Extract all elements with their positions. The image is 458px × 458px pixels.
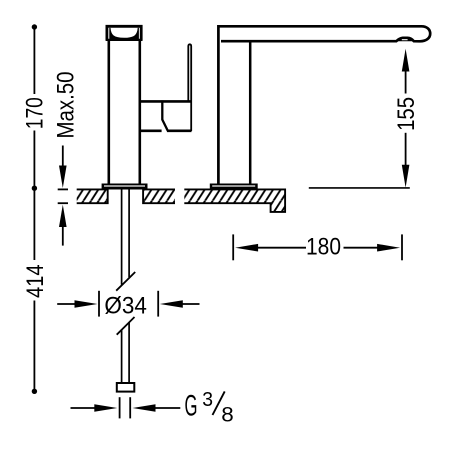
svg-text:3: 3 [202, 388, 213, 411]
svg-text:G: G [185, 390, 198, 423]
svg-text:Max.50: Max.50 [53, 72, 80, 139]
svg-text:8: 8 [221, 403, 234, 427]
svg-text:170: 170 [21, 97, 48, 129]
svg-text:Ø34: Ø34 [104, 292, 147, 319]
svg-text:155: 155 [393, 97, 420, 131]
svg-text:414: 414 [22, 264, 49, 298]
svg-text:180: 180 [306, 233, 341, 260]
